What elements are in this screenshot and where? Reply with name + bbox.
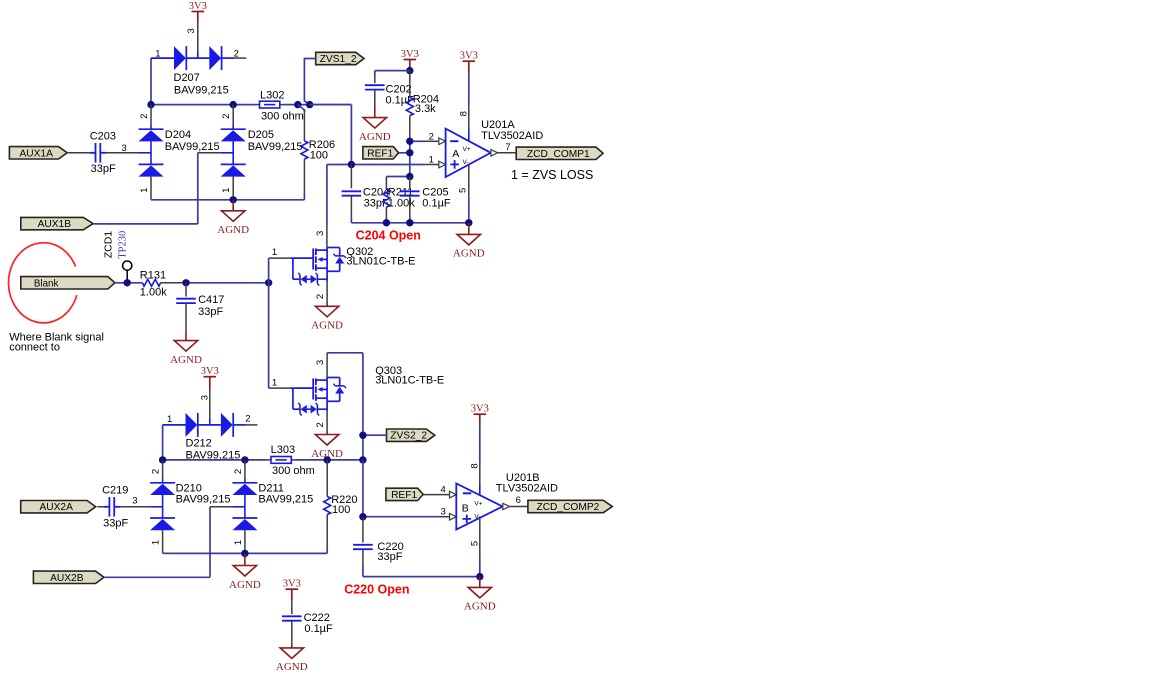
svg-text:connect to: connect to <box>9 341 60 353</box>
capacitor C417 <box>176 283 196 330</box>
port Blank <box>21 277 115 290</box>
diode D207 (dual, common anode to 3V3) <box>151 46 246 70</box>
wire AUX2B to D211 pin3 <box>104 507 245 578</box>
svg-text:3: 3 <box>199 395 210 400</box>
op-amp U201B <box>456 463 502 576</box>
svg-text:1: 1 <box>151 540 162 545</box>
svg-text:8: 8 <box>458 111 469 116</box>
diode D212 (dual, common anode to 3V3) <box>163 413 258 437</box>
wire ZVS1_2 riser <box>304 59 315 105</box>
svg-text:33pF: 33pF <box>91 163 116 175</box>
transistor Q302 <box>269 226 346 301</box>
label L302 <box>260 90 304 123</box>
test point ZCD1 TP230 <box>102 231 132 283</box>
svg-text:BAV99,215: BAV99,215 <box>165 141 220 153</box>
svg-text:1: 1 <box>221 188 232 193</box>
wire AGND rail (comp A) <box>351 138 472 227</box>
svg-text:AGND: AGND <box>217 224 249 236</box>
svg-text:AGND: AGND <box>311 320 343 332</box>
svg-text:2: 2 <box>233 469 244 474</box>
svg-text:2: 2 <box>234 49 239 60</box>
svg-text:ZCD1: ZCD1 <box>102 231 114 259</box>
svg-text:ZCD_COMP2: ZCD_COMP2 <box>536 502 599 513</box>
svg-text:ZCD_COMP1: ZCD_COMP1 <box>527 149 590 160</box>
svg-text:AGND: AGND <box>359 131 391 143</box>
label R220 <box>331 494 357 516</box>
svg-text:AGND: AGND <box>229 579 261 591</box>
label C205 <box>422 186 451 209</box>
label C204 <box>363 186 389 209</box>
resistor R204 <box>406 71 413 142</box>
svg-text:4: 4 <box>441 485 446 496</box>
resistor R211 <box>383 173 414 223</box>
wire REF1B to pin 4 <box>423 485 456 498</box>
capacitor C222 <box>282 616 302 644</box>
svg-text:6: 6 <box>516 495 521 506</box>
port REF1 (B) <box>386 488 423 501</box>
capacitor C205 <box>400 177 420 223</box>
svg-text:REF1: REF1 <box>367 148 393 159</box>
power 3V3 (D207 clamp) <box>186 1 207 58</box>
text 1 = ZVS LOSS <box>511 168 593 182</box>
svg-text:R131: R131 <box>140 269 166 281</box>
wire REF1 to bus <box>399 152 410 154</box>
wire pin 2 (inverting input) <box>410 131 446 144</box>
svg-text:V+: V+ <box>474 500 482 507</box>
diode D205 (dual vertical) <box>221 105 246 200</box>
svg-text:0.1µF: 0.1µF <box>422 197 451 209</box>
port AUX1A <box>9 147 67 160</box>
svg-text:3LN01C-TB-E: 3LN01C-TB-E <box>346 256 415 268</box>
resistor R220 <box>324 460 331 554</box>
resistor R206 <box>298 105 308 200</box>
svg-text:L303: L303 <box>271 444 295 456</box>
svg-text:3V3: 3V3 <box>460 51 478 62</box>
svg-text:A: A <box>452 148 459 160</box>
label C203 <box>90 131 127 175</box>
svg-text:BAV99,215: BAV99,215 <box>258 493 313 505</box>
svg-text:L302: L302 <box>260 90 284 102</box>
power 3V3 (D212 clamp) <box>199 366 218 425</box>
svg-text:TLV3502AID: TLV3502AID <box>481 130 543 142</box>
capacitor C219 <box>97 497 162 517</box>
ground AGND (Q303) <box>311 431 343 460</box>
svg-text:REF1: REF1 <box>391 490 417 501</box>
svg-text:3V3: 3V3 <box>201 366 219 377</box>
svg-text:TLV3502AID: TLV3502AID <box>496 482 558 494</box>
wire ZVS2 to pin 3 <box>359 460 456 521</box>
svg-text:AUX2A: AUX2A <box>39 502 73 513</box>
wire D212 pin1 to node <box>162 425 164 460</box>
svg-text:3V3: 3V3 <box>401 49 419 60</box>
label R206 <box>309 139 335 162</box>
label U201B <box>496 472 558 494</box>
svg-text:8: 8 <box>469 463 480 468</box>
ground AGND (bridge 1) <box>217 200 249 236</box>
label L303 <box>271 444 315 477</box>
svg-text:5: 5 <box>458 188 469 193</box>
svg-text:3V3: 3V3 <box>471 404 489 415</box>
svg-text:100: 100 <box>332 504 350 516</box>
capacitor C220 <box>353 517 373 577</box>
svg-text:1: 1 <box>272 377 277 388</box>
ground AGND (bridge 2) <box>229 553 261 590</box>
svg-text:AGND: AGND <box>170 354 202 366</box>
svg-text:33pF: 33pF <box>103 517 128 529</box>
svg-text:ZVS2_2: ZVS2_2 <box>390 431 427 442</box>
svg-text:2: 2 <box>429 131 434 142</box>
ground AGND (C222) <box>276 644 308 673</box>
wire top rail <box>151 104 351 106</box>
op-amp U201B output <box>503 495 528 510</box>
label D211 <box>258 483 313 506</box>
wire AGND rail (comp B) <box>363 573 484 580</box>
svg-text:1.00k: 1.00k <box>140 286 167 298</box>
svg-text:BAV99,215: BAV99,215 <box>174 84 229 96</box>
svg-text:1: 1 <box>155 49 160 60</box>
svg-text:C220 Open: C220 Open <box>344 582 409 596</box>
svg-text:V+: V+ <box>463 146 471 153</box>
label C202 <box>386 83 415 106</box>
svg-text:3: 3 <box>186 28 197 33</box>
label R211 <box>388 186 415 209</box>
label C220 <box>377 541 403 563</box>
svg-text:1: 1 <box>167 414 172 425</box>
svg-text:33pF: 33pF <box>377 551 402 563</box>
port AUX1B <box>21 217 93 230</box>
ground AGND (U201B) <box>464 577 496 613</box>
diode D211 (dual vertical) <box>232 460 257 554</box>
port ZVS1_2 <box>316 52 364 65</box>
svg-text:V-: V- <box>463 159 469 166</box>
svg-text:1: 1 <box>429 154 434 165</box>
label D212 <box>186 438 241 462</box>
port AUX2A <box>21 501 96 514</box>
label R204 <box>413 94 439 116</box>
svg-text:3.3k: 3.3k <box>415 103 436 115</box>
svg-text:3: 3 <box>441 507 446 518</box>
wire D207 pin1 to node <box>150 58 152 105</box>
wire bottom rail (bridge 2) <box>163 550 328 557</box>
svg-text:C203: C203 <box>90 131 116 143</box>
text Where Blank signal connect to <box>9 332 104 354</box>
label D205 <box>248 129 303 153</box>
svg-text:D204: D204 <box>165 129 191 141</box>
svg-text:3: 3 <box>315 231 326 236</box>
svg-text:3LN01C-TB-E: 3LN01C-TB-E <box>375 374 444 386</box>
svg-text:3V3: 3V3 <box>283 579 301 590</box>
svg-text:AGND: AGND <box>464 601 496 613</box>
op-amp U201A <box>446 103 491 222</box>
wire AUX1B to D205 pin3 <box>93 153 233 224</box>
svg-text:300 ohm: 300 ohm <box>272 465 315 477</box>
resistor R131 <box>143 279 187 286</box>
svg-text:2: 2 <box>151 469 162 474</box>
port REF1 (A) <box>363 147 399 160</box>
svg-text:B: B <box>462 502 469 514</box>
ground AGND (C417) <box>170 330 202 366</box>
label Q303 <box>375 365 444 387</box>
label U201A <box>481 119 543 142</box>
wire ZVS2_2 stub <box>359 432 386 439</box>
wire Q303 drain to ZVS2 node <box>327 353 363 460</box>
svg-text:AUX1A: AUX1A <box>19 148 53 159</box>
inductor L303 <box>271 457 291 464</box>
svg-text:2: 2 <box>315 422 326 427</box>
text C220 Open <box>344 582 409 596</box>
power 3V3 (R204/C202) <box>401 49 419 74</box>
capacitor C204 <box>342 165 362 223</box>
svg-text:7: 7 <box>505 142 510 153</box>
svg-text:0.1µF: 0.1µF <box>304 623 333 635</box>
svg-text:C204 Open: C204 Open <box>356 228 421 242</box>
svg-text:2: 2 <box>315 294 326 299</box>
ground AGND (C202) <box>359 106 391 143</box>
svg-text:2: 2 <box>245 414 250 425</box>
label Q302 <box>346 246 415 268</box>
svg-text:C219: C219 <box>102 485 128 497</box>
svg-text:1 = ZVS LOSS: 1 = ZVS LOSS <box>511 168 593 182</box>
svg-text:3V3: 3V3 <box>189 1 207 12</box>
svg-text:BAV99,215: BAV99,215 <box>176 493 231 505</box>
text C204 Open <box>356 228 421 242</box>
label C222 <box>304 612 333 635</box>
svg-text:1: 1 <box>272 247 277 258</box>
diode D204 (dual vertical) <box>139 105 164 200</box>
label C417 <box>198 294 224 318</box>
svg-text:2: 2 <box>221 114 232 119</box>
svg-text:AGND: AGND <box>453 248 485 260</box>
capacitor C202 <box>365 85 385 106</box>
label D204 <box>165 129 220 153</box>
label D210 <box>176 483 231 506</box>
power 3V3 (U201A) <box>460 51 478 103</box>
port AUX2B <box>33 571 104 584</box>
diode D210 (dual vertical) <box>150 460 175 554</box>
node junction dots top rail <box>147 101 313 108</box>
svg-text:Blank: Blank <box>34 278 59 289</box>
svg-text:D205: D205 <box>248 129 274 141</box>
svg-text:300 ohm: 300 ohm <box>261 111 304 123</box>
svg-text:TP230: TP230 <box>118 231 129 259</box>
port ZCD_COMP2 <box>528 500 612 513</box>
svg-text:1: 1 <box>233 540 244 545</box>
op-amp U201A output <box>491 142 517 156</box>
svg-text:D212: D212 <box>186 438 212 450</box>
svg-text:100: 100 <box>310 149 328 161</box>
svg-text:3: 3 <box>122 143 127 154</box>
wire REF1 bus <box>409 141 411 176</box>
ground AGND (U201A) <box>453 223 485 260</box>
svg-text:1.00k: 1.00k <box>388 197 415 209</box>
svg-text:3: 3 <box>132 495 137 506</box>
svg-text:AUX1B: AUX1B <box>38 219 72 230</box>
port ZCD_COMP1 <box>516 147 603 160</box>
svg-text:D207: D207 <box>174 72 200 84</box>
power 3V3 (C222) <box>283 579 301 615</box>
svg-text:AGND: AGND <box>276 661 308 673</box>
wire blank net to gates <box>182 258 272 388</box>
ground AGND (Q302) <box>311 301 343 332</box>
svg-text:1: 1 <box>139 188 150 193</box>
label R131 <box>140 269 167 298</box>
svg-text:ZVS1_2: ZVS1_2 <box>320 54 357 65</box>
label D207 <box>174 72 229 97</box>
wire ZVS1 sense to pin 1 <box>310 105 446 226</box>
wire Blank to R131 <box>115 279 143 286</box>
annotation red circle <box>9 243 77 323</box>
transistor Q303 <box>269 353 346 431</box>
port ZVS2_2 <box>387 429 435 442</box>
svg-text:2: 2 <box>139 114 150 119</box>
wire 3V3 to C202 <box>375 71 410 84</box>
svg-text:C417: C417 <box>198 294 224 306</box>
label C219 <box>102 485 137 530</box>
svg-text:AUX2B: AUX2B <box>50 573 84 584</box>
power 3V3 (U201B) <box>471 404 489 484</box>
capacitor C203 <box>67 143 151 163</box>
svg-text:5: 5 <box>469 541 480 546</box>
svg-text:BAV99,215: BAV99,215 <box>248 141 303 153</box>
inductor L302 <box>260 101 280 108</box>
svg-text:3: 3 <box>315 360 326 365</box>
wire rail 2 <box>159 456 367 463</box>
svg-text:33pF: 33pF <box>198 306 223 318</box>
wire bottom rail (bridge 1) <box>151 196 304 203</box>
